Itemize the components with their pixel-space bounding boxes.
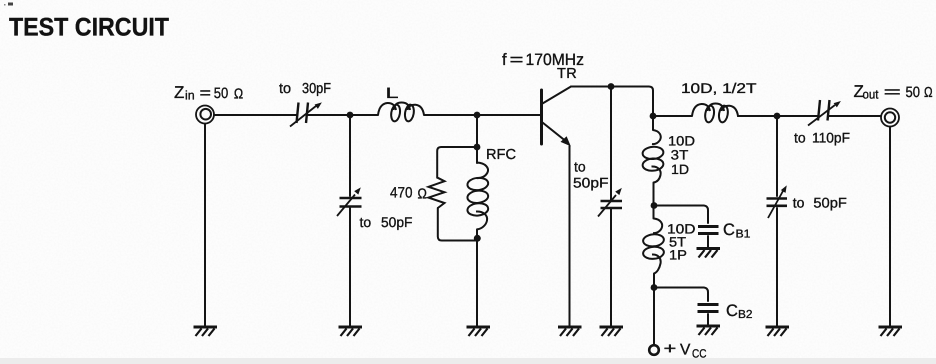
svg-text:to30pF: to30pF bbox=[279, 81, 331, 97]
svg-text:to110pF: to110pF bbox=[794, 130, 850, 146]
svg-text:1D: 1D bbox=[671, 162, 689, 177]
svg-text:TR: TR bbox=[557, 66, 577, 82]
svg-text:3T: 3T bbox=[671, 148, 689, 163]
svg-text:RFC: RFC bbox=[486, 147, 516, 163]
svg-text:1P: 1P bbox=[669, 248, 687, 263]
svg-text:to: to bbox=[574, 159, 586, 175]
svg-text:to50pF: to50pF bbox=[360, 214, 413, 230]
svg-text:to50pF: to50pF bbox=[793, 195, 847, 211]
svg-text:L: L bbox=[386, 85, 399, 102]
svg-text:TEST CIRCUIT: TEST CIRCUIT bbox=[9, 14, 169, 42]
svg-text:10D, 1/2T: 10D, 1/2T bbox=[681, 80, 757, 96]
svg-text:10D: 10D bbox=[668, 134, 695, 149]
svg-text:470Ω: 470Ω bbox=[390, 185, 427, 203]
svg-text:50pF: 50pF bbox=[573, 175, 609, 191]
